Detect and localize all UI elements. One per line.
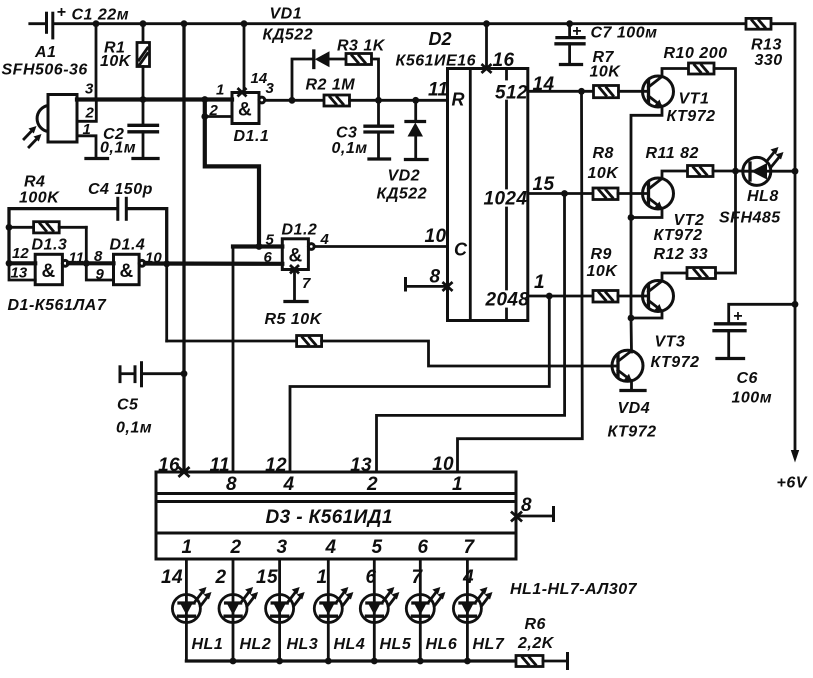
ground: VD4 emitter bbox=[621, 389, 645, 392]
svg-text:+: + bbox=[57, 4, 67, 21]
svg-text:8: 8 bbox=[521, 495, 532, 516]
svg-text:4: 4 bbox=[462, 567, 474, 588]
svg-text:D2: D2 bbox=[429, 29, 452, 49]
svg-text:VD1: VD1 bbox=[270, 6, 303, 23]
svg-text:D1.3: D1.3 bbox=[32, 237, 68, 254]
node: dot VT2 emitter junction bbox=[628, 214, 635, 221]
node: junction dot rail/D1.1 pin14 bbox=[241, 20, 248, 27]
svg-text:14: 14 bbox=[251, 70, 268, 87]
capacitor C5 bbox=[116, 361, 184, 436]
wire: D2 pin15 output 1024 bbox=[528, 192, 593, 195]
wire: R3 to right node bbox=[372, 59, 379, 100]
wires: D3 outputs 1-7 down to LEDs bbox=[185, 559, 188, 661]
transistor VT1 KT972 bbox=[643, 76, 716, 125]
svg-text:3: 3 bbox=[85, 81, 94, 98]
ground: A1 pin1 bbox=[86, 157, 108, 160]
svg-text:16: 16 bbox=[158, 455, 180, 476]
arrows: IR light into A1 bbox=[24, 126, 42, 147]
capacitor C6 100u bbox=[714, 301, 798, 407]
svg-text:С6: С6 bbox=[737, 370, 758, 387]
svg-text:КТ972: КТ972 bbox=[654, 227, 703, 244]
svg-text:С5: С5 bbox=[117, 397, 139, 414]
svg-text:R3 1K: R3 1K bbox=[337, 38, 386, 55]
svg-text:SFH485: SFH485 bbox=[719, 210, 781, 227]
svg-text:10K: 10K bbox=[590, 64, 622, 81]
resistor R4 100K bbox=[6, 174, 87, 233]
wire: 1024 line descent to D3 pin13 bbox=[377, 194, 565, 473]
svg-text:2: 2 bbox=[366, 474, 378, 495]
node: dot R4/ D1.4 pin8 bbox=[83, 260, 90, 267]
wire: D2 pin16 power drop bbox=[485, 24, 488, 69]
svg-text:10: 10 bbox=[432, 454, 454, 475]
svg-text:14: 14 bbox=[533, 74, 555, 95]
node: dot C4/R5 tap bbox=[163, 260, 170, 267]
diode VD2 KD522 bbox=[377, 100, 428, 202]
node: junction dot pin1/pin2 tie of D1.1 bbox=[201, 96, 208, 103]
svg-text:КТ972: КТ972 bbox=[608, 424, 657, 441]
svg-text:0,1м: 0,1м bbox=[332, 140, 368, 157]
wire: R10 to LED column bbox=[714, 69, 736, 172]
svg-text:КД522: КД522 bbox=[263, 27, 314, 44]
svg-text:12: 12 bbox=[12, 245, 29, 262]
wire: D1.1 pin2 input bbox=[205, 115, 232, 118]
LED HL2 bbox=[219, 587, 271, 653]
gate D1.2 bbox=[264, 222, 330, 293]
svg-text:4: 4 bbox=[283, 474, 295, 495]
node: junction dot rail/x184 supply drop bbox=[181, 20, 188, 27]
node: dot C5 on rail bbox=[181, 370, 188, 377]
wire: A1 pin2 tie loop bbox=[77, 100, 96, 122]
LED HL4 bbox=[314, 587, 365, 653]
svg-text:R: R bbox=[452, 90, 465, 110]
wire: drop from rail to A1 pin3 bbox=[95, 24, 98, 100]
svg-text:7: 7 bbox=[464, 537, 476, 558]
node: junction dot R1 top bbox=[140, 20, 147, 27]
svg-text:512: 512 bbox=[495, 83, 528, 104]
gate D1.1 (K561LA7) bbox=[209, 70, 275, 145]
wire: +V vertical rail x184 down to D3 pin16 bbox=[182, 24, 185, 472]
LED HL6 bbox=[406, 587, 457, 653]
svg-text:13: 13 bbox=[11, 265, 28, 282]
wire: 512 line descent to D3 pin10 bbox=[458, 91, 583, 472]
wire: pin14 power drop to D1.1 bbox=[243, 24, 246, 93]
wire: D1.2 pin7 stub to ground bbox=[293, 270, 296, 302]
node: dot HL8 on +6V rail bbox=[792, 168, 799, 175]
diode VD1 KD522 bbox=[263, 6, 347, 68]
node: junction dot D1.1 out bbox=[289, 97, 296, 104]
svg-text:5: 5 bbox=[372, 537, 383, 558]
svg-text:6: 6 bbox=[366, 567, 377, 588]
svg-text:15: 15 bbox=[256, 567, 278, 588]
svg-text:HL5: HL5 bbox=[380, 636, 412, 653]
svg-text:+: + bbox=[733, 308, 743, 325]
wire: D1.1 output to R2 node bbox=[265, 99, 292, 102]
IC D2 K561IE16 counter bbox=[396, 29, 530, 321]
svg-text:330: 330 bbox=[755, 52, 783, 69]
svg-text:2: 2 bbox=[209, 102, 219, 119]
svg-text:HL4: HL4 bbox=[334, 636, 366, 653]
resistor R8 10K bbox=[588, 145, 649, 200]
resistor R12 33 bbox=[654, 246, 716, 279]
node: dot R10/R11/R12 common at HL8 bbox=[732, 168, 739, 175]
wire: 2048 line descent to D3 pin12 bbox=[290, 296, 549, 472]
svg-text:D1-К561ЛА7: D1-К561ЛА7 bbox=[8, 297, 107, 314]
svg-text:D1.4: D1.4 bbox=[110, 237, 146, 254]
wire: R2 to D2 pin11 bbox=[350, 99, 448, 102]
wire: VT3 emitter to common bbox=[631, 311, 662, 318]
capacitor C2 bbox=[100, 100, 158, 159]
LED HL8 SFH485 bbox=[719, 147, 795, 227]
svg-text:8: 8 bbox=[94, 248, 103, 265]
wire: D1.2 pin5 line (thick) bbox=[233, 244, 282, 248]
wire: branch up to VD1/R3 bbox=[292, 59, 313, 100]
svg-text:9: 9 bbox=[96, 266, 105, 283]
wire: drop from pin5 line to D3 pin11 bbox=[232, 247, 235, 473]
ground: VD2 bbox=[406, 158, 428, 161]
svg-text:100м: 100м bbox=[732, 390, 773, 407]
svg-text:R9: R9 bbox=[591, 246, 612, 263]
node: dot VT3 emitter junction bbox=[628, 315, 635, 322]
wire: A1 pin3 output line (thick) to D1.1 bbox=[77, 97, 232, 101]
svg-text:+6V: +6V bbox=[777, 475, 808, 492]
svg-text:&: & bbox=[289, 246, 303, 267]
svg-text:2: 2 bbox=[85, 105, 95, 122]
svg-text:16: 16 bbox=[493, 50, 515, 71]
svg-text:1: 1 bbox=[182, 537, 193, 558]
svg-text:С7 100м: С7 100м bbox=[591, 25, 658, 42]
svg-text:12: 12 bbox=[265, 455, 287, 476]
svg-text:+: + bbox=[572, 23, 582, 40]
svg-text:1: 1 bbox=[534, 272, 545, 293]
wire: VT3 collector to R12 bbox=[662, 273, 687, 281]
svg-text:10K: 10K bbox=[588, 165, 620, 182]
wire: D3 pin8 stub with terminator bbox=[512, 495, 554, 522]
capacitor C3 bbox=[332, 100, 393, 159]
wire: R5 to VD4 base bbox=[322, 341, 618, 366]
svg-text:КТ972: КТ972 bbox=[651, 354, 700, 371]
node: dot pin15 descent bbox=[561, 190, 568, 197]
node: junction dot R1/C2 on pin3 line bbox=[140, 96, 147, 103]
svg-text:&: & bbox=[120, 261, 134, 282]
node: junction dot VD2 bbox=[412, 97, 419, 104]
svg-text:7: 7 bbox=[412, 567, 424, 588]
svg-text:КТ972: КТ972 bbox=[667, 108, 716, 125]
resistor R1 bbox=[100, 24, 150, 100]
wire: common emitter chain down bbox=[630, 218, 633, 319]
svg-text:R10 200: R10 200 bbox=[664, 45, 728, 62]
resistor R5 10K bbox=[167, 311, 323, 347]
svg-text:VT3: VT3 bbox=[655, 334, 686, 351]
svg-text:1024: 1024 bbox=[484, 189, 528, 210]
wire: D1.4 output line to D1.2 pin6 (thick) bbox=[145, 261, 282, 265]
svg-text:D1.1: D1.1 bbox=[234, 128, 270, 145]
wire: D1.3 out to D1.4 in (thick) bbox=[68, 261, 113, 265]
svg-text:HL7: HL7 bbox=[473, 636, 505, 653]
wire: LED common bus bbox=[186, 659, 516, 662]
svg-text:HL6: HL6 bbox=[426, 636, 458, 653]
svg-text:1: 1 bbox=[216, 82, 224, 99]
wire: R12 up to LED column bbox=[716, 171, 736, 273]
svg-text:3: 3 bbox=[277, 537, 288, 558]
svg-text:HL8: HL8 bbox=[747, 188, 779, 205]
node: junction dot C1/A1 supply bbox=[93, 20, 100, 27]
IR receiver A1 SFH506-36 bbox=[2, 44, 95, 142]
wire: VT2 collector to R11 bbox=[662, 171, 688, 179]
wire: VT1 collector to R10 bbox=[662, 69, 689, 77]
svg-text:11: 11 bbox=[428, 80, 449, 101]
resistor R2 1M bbox=[292, 77, 355, 107]
svg-text:R6: R6 bbox=[525, 616, 546, 633]
svg-text:HL2: HL2 bbox=[240, 636, 272, 653]
wire: D2 pin1 output 2048 bbox=[528, 295, 593, 298]
svg-text:7: 7 bbox=[302, 275, 311, 292]
wire: A1 pin1 to ground bbox=[77, 136, 96, 159]
svg-text:2: 2 bbox=[215, 567, 227, 588]
resistor R6 2.2K bbox=[516, 616, 568, 670]
wire: D2 pin14 output 512 bbox=[528, 90, 594, 93]
svg-text:КД522: КД522 bbox=[377, 186, 428, 203]
power: +6V arrow terminal bbox=[777, 450, 808, 492]
LED HL1 bbox=[172, 587, 223, 653]
svg-text:R8: R8 bbox=[593, 145, 614, 162]
svg-text:13: 13 bbox=[350, 455, 372, 476]
wire: top +V rail bbox=[54, 24, 795, 450]
gate D1.4 bbox=[86, 237, 162, 285]
svg-text:0,1м: 0,1м bbox=[116, 420, 152, 437]
svg-text:C4 150р: C4 150р bbox=[88, 181, 153, 198]
wire: VT1 emitter to common bbox=[631, 107, 662, 218]
svg-text:VT1: VT1 bbox=[679, 91, 710, 108]
svg-text:C: C bbox=[454, 240, 468, 260]
svg-text:HL1-HL7-АЛ307: HL1-HL7-АЛ307 bbox=[510, 581, 638, 598]
svg-text:0,1м: 0,1м bbox=[100, 140, 136, 157]
pin16 mark D2 bbox=[483, 65, 491, 72]
wire: VT2 emitter to common bbox=[631, 209, 662, 218]
svg-text:&: & bbox=[42, 261, 56, 282]
svg-text:HL3: HL3 bbox=[287, 636, 319, 653]
svg-text:10K: 10K bbox=[100, 53, 132, 70]
svg-text:HL1: HL1 bbox=[192, 636, 224, 653]
svg-text:6: 6 bbox=[418, 537, 429, 558]
wire: feedback from D1.1 input down to D1.2 pin5 (thick) bbox=[205, 100, 259, 246]
svg-text:1: 1 bbox=[452, 474, 463, 495]
svg-text:R5 10K: R5 10K bbox=[265, 311, 323, 328]
svg-text:С3: С3 bbox=[336, 125, 357, 142]
svg-text:R13: R13 bbox=[751, 37, 782, 54]
svg-text:5: 5 bbox=[266, 232, 275, 249]
wire: D1.2 output pin4 to D2 pin10 C bbox=[314, 245, 447, 248]
svg-text:2048: 2048 bbox=[485, 290, 530, 311]
node: junction dot C3 bbox=[375, 97, 382, 104]
svg-text:8: 8 bbox=[430, 267, 441, 288]
svg-text:2: 2 bbox=[230, 537, 242, 558]
transistor VT3 KT972 bbox=[643, 281, 700, 372]
capacitor C4 150p bbox=[9, 181, 167, 264]
svg-text:VD4: VD4 bbox=[618, 400, 651, 417]
svg-text:6: 6 bbox=[264, 249, 273, 266]
svg-text:11: 11 bbox=[209, 455, 230, 476]
svg-text:2,2K: 2,2K bbox=[517, 635, 555, 652]
capacitor C7 100u bbox=[556, 20, 657, 64]
resistor R7 10K bbox=[590, 49, 649, 98]
svg-text:R4: R4 bbox=[24, 174, 45, 191]
gate D1.3 bbox=[9, 237, 84, 285]
node: dot pin12/13 tie bbox=[6, 260, 13, 267]
wire: R4 right lead down to gate line bbox=[85, 227, 88, 263]
svg-text:R2 1M: R2 1M bbox=[306, 77, 356, 94]
resistor R10 200 bbox=[664, 45, 728, 74]
svg-text:R11 82: R11 82 bbox=[646, 145, 699, 162]
node: dot feedback onto pin5 line bbox=[256, 243, 263, 250]
LED HL7 bbox=[453, 587, 504, 653]
svg-text:8: 8 bbox=[226, 474, 237, 495]
svg-text:14: 14 bbox=[161, 567, 183, 588]
LED HL3 bbox=[266, 587, 319, 653]
wire: down from D1.4 out node to R5 line bbox=[165, 264, 168, 341]
svg-text:A1: A1 bbox=[34, 44, 56, 61]
node: dot pin14 descent bbox=[578, 88, 585, 95]
ground: C3 bbox=[369, 157, 390, 160]
ground: D1.2 pin7 bbox=[285, 300, 307, 303]
svg-text:10K: 10K bbox=[587, 263, 619, 280]
svg-text:D1.2: D1.2 bbox=[282, 222, 318, 239]
resistor R9 10K bbox=[587, 246, 649, 302]
svg-text:100K: 100K bbox=[19, 190, 60, 207]
svg-text:R12 33: R12 33 bbox=[654, 246, 709, 263]
svg-text:10: 10 bbox=[425, 226, 447, 247]
node: bus junction dots bbox=[230, 658, 237, 665]
node: dot pin1 descent bbox=[546, 293, 553, 300]
resistor R11 82 bbox=[646, 145, 743, 177]
svg-text:&: & bbox=[238, 100, 252, 121]
ground: C2 bbox=[133, 157, 158, 160]
svg-text:1: 1 bbox=[317, 567, 328, 588]
IC D3 K561ID1 decoder bbox=[156, 472, 516, 559]
transistor VD4 (KT972 switch) bbox=[608, 318, 657, 441]
svg-text:D3 - К561ИД1: D3 - К561ИД1 bbox=[266, 507, 393, 528]
LED HL5 bbox=[360, 587, 412, 653]
pin16 mark D3 bbox=[180, 468, 189, 476]
resistor R13 330 (on top rail) bbox=[746, 18, 783, 69]
resistor R3 1K bbox=[337, 38, 386, 65]
transistor VT2 KT972 bbox=[643, 178, 705, 244]
svg-text:К561ИЕ16: К561ИЕ16 bbox=[396, 53, 477, 70]
wire: D2 pin8 stub with terminator bbox=[406, 267, 452, 292]
capacitor C1 bbox=[30, 4, 129, 39]
svg-text:15: 15 bbox=[533, 174, 555, 195]
svg-text:VD2: VD2 bbox=[388, 168, 421, 185]
svg-text:С1 22м: С1 22м bbox=[72, 7, 130, 24]
svg-text:4: 4 bbox=[325, 537, 337, 558]
node: dot rail / D2 pin16 bbox=[483, 20, 490, 27]
svg-text:SFH506-36: SFH506-36 bbox=[2, 62, 88, 79]
